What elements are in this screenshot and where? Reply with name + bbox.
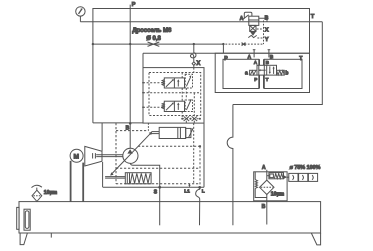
wire dashed drains below box	[193, 123, 195, 184]
tank tick	[50, 233, 52, 238]
tank right foot	[311, 233, 320, 245]
shaft	[96, 154, 123, 156]
tank inner filter	[24, 209, 30, 230]
svg-text:A: A	[254, 60, 258, 65]
wire box right edge extension to bottom	[203, 123, 205, 187]
svg-text:M: M	[74, 153, 80, 160]
svg-text:10µm: 10µm	[271, 192, 285, 198]
svg-text:a: a	[245, 71, 248, 77]
solenoid of valve 2	[185, 100, 192, 112]
svg-text:10µm: 10µm	[44, 190, 58, 196]
check valve bypass	[267, 173, 287, 179]
relief valve pilot block top right	[243, 12, 259, 37]
pressure gauge	[76, 7, 85, 16]
wire manifold top line y53.2	[143, 52, 310, 54]
wire dashed pilot wiring in box	[143, 68, 201, 124]
solenoid a	[250, 70, 257, 75]
node pilot arrowhead	[242, 43, 245, 46]
motor legs	[71, 161, 84, 202]
wire left drop x143	[142, 53, 144, 67]
pump	[123, 148, 138, 163]
svg-text:B: B	[265, 16, 269, 22]
tank left bar	[17, 207, 19, 229]
tank left foot	[20, 233, 27, 245]
node junction dots	[92, 43, 225, 189]
return filter block bottom right	[254, 170, 287, 225]
wire bottom line H6	[103, 186, 204, 188]
svg-text:B: B	[270, 54, 274, 59]
node port B stub	[268, 50, 270, 58]
motor M	[70, 149, 83, 162]
svg-text:X: X	[265, 28, 269, 34]
wire return drop with loop	[227, 105, 233, 226]
wire T rail top	[93, 9, 310, 123]
solenoid of valve 1	[185, 74, 192, 88]
svg-text:B: B	[266, 60, 270, 65]
svg-text:S: S	[154, 189, 158, 195]
breather filter	[32, 185, 42, 201]
node diamond port	[192, 62, 195, 66]
svg-text:Дроссель М6: Дроссель М6	[132, 27, 172, 34]
coupling	[92, 153, 94, 158]
wire branch line y44	[93, 43, 224, 45]
manifold inner box right	[264, 59, 302, 88]
directional valve 4/2	[257, 65, 277, 75]
svg-text:L: L	[202, 189, 205, 195]
svg-text:P: P	[224, 56, 228, 62]
valve port stubs	[260, 59, 264, 88]
svg-text:b: b	[285, 71, 288, 77]
wire L hose drop	[196, 187, 200, 225]
wire right return loop	[233, 22, 322, 105]
wire case drain to bell housing	[101, 123, 103, 151]
spring cyl rod	[105, 176, 125, 178]
svg-text:P: P	[132, 2, 136, 8]
svg-text:Ø 0,8: Ø 0,8	[146, 36, 161, 42]
throttle orifice symbol	[148, 42, 160, 46]
svg-text:T: T	[299, 56, 303, 62]
wire relief B link	[259, 18, 267, 21]
valve block manifold outline	[215, 53, 309, 92]
wire suction line	[130, 163, 159, 187]
svg-text:ø 75% 100%: ø 75% 100%	[290, 165, 321, 171]
tank	[19, 202, 321, 233]
wire X pilot drop with hose	[190, 44, 195, 62]
pump outlet triangle	[127, 149, 132, 154]
wire S drop to tank	[159, 187, 161, 225]
node port A stub	[253, 50, 255, 58]
svg-text:B: B	[262, 204, 266, 210]
wire pump pressure line P	[129, 5, 131, 149]
svg-text:X: X	[196, 61, 200, 67]
bell housing	[85, 146, 102, 166]
svg-text:P: P	[254, 77, 257, 82]
wire P drop to valve block	[222, 44, 224, 53]
spring b	[277, 70, 285, 75]
wire rail y21.7	[80, 21, 322, 23]
clogging indicators	[287, 173, 318, 181]
svg-text:A: A	[262, 165, 266, 171]
pump control dashed box	[116, 123, 200, 187]
variable displacement arrow	[111, 133, 151, 175]
svg-text:A: A	[248, 54, 252, 59]
servo cylinder	[159, 127, 193, 138]
wire H5 to B junction	[93, 122, 143, 124]
middle valve enclosure box	[143, 68, 204, 124]
servo rod	[151, 131, 159, 133]
bypass spring left	[255, 172, 267, 198]
spring cylinder	[125, 173, 151, 184]
proportional valve 1	[162, 78, 184, 88]
wire gauge stub	[79, 16, 81, 22]
svg-text:L1: L1	[184, 189, 190, 195]
manifold inner box left	[223, 59, 259, 88]
svg-text:T: T	[311, 14, 315, 20]
svg-text:Y: Y	[265, 37, 269, 43]
svg-text:T: T	[266, 77, 269, 82]
orifice pair under valves	[181, 116, 201, 121]
wire dashed X port	[225, 21, 263, 45]
wire pump group left edge	[102, 162, 104, 187]
wire dashed rod feed	[147, 123, 149, 131]
svg-text:A: A	[240, 16, 244, 22]
proportional valve 2	[162, 101, 184, 111]
